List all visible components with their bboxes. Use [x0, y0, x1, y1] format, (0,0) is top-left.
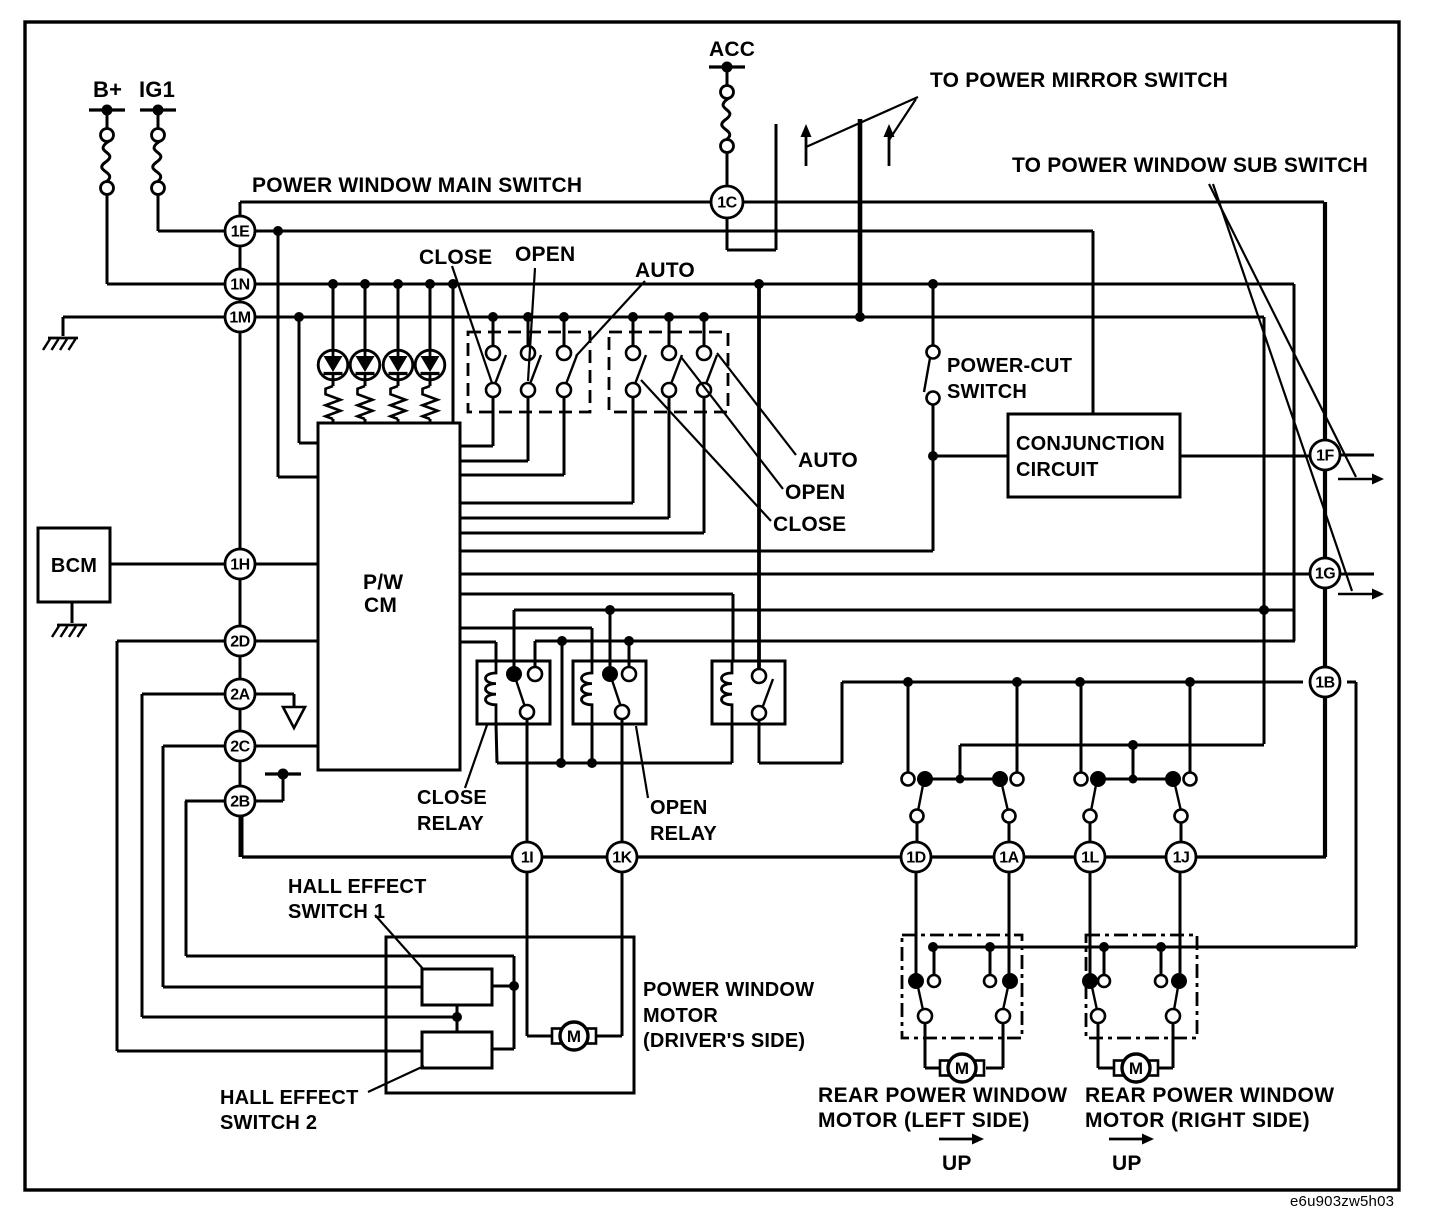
svg-text:1L: 1L — [1081, 850, 1099, 867]
svg-text:UP: UP — [1112, 1152, 1142, 1175]
svg-text:1M: 1M — [229, 310, 250, 327]
svg-text:1I: 1I — [521, 850, 533, 867]
svg-text:CM: CM — [364, 594, 397, 617]
svg-text:1K: 1K — [612, 850, 632, 867]
svg-text:1E: 1E — [231, 224, 250, 241]
svg-text:AUTO: AUTO — [635, 259, 695, 282]
svg-text:POWER WINDOW MAIN SWITCH: POWER WINDOW MAIN SWITCH — [252, 174, 582, 197]
svg-text:2B: 2B — [230, 794, 249, 811]
svg-text:(DRIVER'S SIDE): (DRIVER'S SIDE) — [643, 1030, 805, 1052]
svg-text:1F: 1F — [1316, 448, 1334, 465]
svg-text:CIRCUIT: CIRCUIT — [1016, 459, 1099, 481]
svg-text:2C: 2C — [230, 739, 250, 756]
svg-text:e6u903zw5h03: e6u903zw5h03 — [1290, 1193, 1394, 1210]
svg-text:MOTOR: MOTOR — [643, 1005, 718, 1027]
svg-text:P/W: P/W — [363, 571, 403, 594]
svg-text:1N: 1N — [230, 277, 249, 294]
svg-text:TO POWER MIRROR SWITCH: TO POWER MIRROR SWITCH — [930, 69, 1228, 92]
svg-text:IG1: IG1 — [139, 77, 175, 102]
svg-text:M: M — [1129, 1059, 1143, 1078]
svg-text:POWER-CUT: POWER-CUT — [947, 355, 1072, 377]
svg-text:ACC: ACC — [709, 38, 755, 61]
svg-text:1D: 1D — [906, 850, 925, 867]
svg-text:TO POWER WINDOW SUB SWITCH: TO POWER WINDOW SUB SWITCH — [1012, 154, 1368, 177]
svg-text:SWITCH 1: SWITCH 1 — [288, 901, 385, 923]
svg-text:HALL EFFECT: HALL EFFECT — [288, 876, 427, 898]
svg-text:CLOSE: CLOSE — [417, 787, 487, 809]
svg-text:M: M — [567, 1027, 581, 1046]
svg-text:REAR POWER WINDOW: REAR POWER WINDOW — [818, 1084, 1067, 1107]
svg-text:1H: 1H — [230, 557, 249, 574]
svg-text:REAR POWER WINDOW: REAR POWER WINDOW — [1085, 1084, 1334, 1107]
svg-text:1A: 1A — [999, 850, 1019, 867]
svg-text:CONJUNCTION: CONJUNCTION — [1016, 433, 1165, 455]
svg-text:2A: 2A — [230, 687, 250, 704]
svg-text:M: M — [955, 1059, 969, 1078]
svg-text:SWITCH 2: SWITCH 2 — [220, 1112, 317, 1134]
svg-text:OPEN: OPEN — [650, 797, 707, 819]
svg-text:RELAY: RELAY — [417, 813, 484, 835]
svg-text:OPEN: OPEN — [515, 243, 575, 266]
svg-text:1G: 1G — [1315, 566, 1335, 583]
svg-text:1B: 1B — [1315, 675, 1334, 692]
svg-text:1J: 1J — [1173, 850, 1190, 867]
svg-text:B+: B+ — [93, 77, 122, 102]
svg-text:CLOSE: CLOSE — [773, 513, 846, 536]
svg-text:SWITCH: SWITCH — [947, 381, 1027, 403]
svg-text:HALL EFFECT: HALL EFFECT — [220, 1087, 359, 1109]
svg-text:1C: 1C — [717, 195, 737, 212]
svg-text:MOTOR (RIGHT SIDE): MOTOR (RIGHT SIDE) — [1085, 1109, 1310, 1132]
svg-text:MOTOR (LEFT SIDE): MOTOR (LEFT SIDE) — [818, 1109, 1030, 1132]
svg-text:CLOSE: CLOSE — [419, 246, 492, 269]
svg-text:AUTO: AUTO — [798, 449, 858, 472]
svg-text:OPEN: OPEN — [785, 481, 845, 504]
svg-text:BCM: BCM — [51, 555, 97, 577]
svg-text:RELAY: RELAY — [650, 823, 717, 845]
svg-text:UP: UP — [942, 1152, 972, 1175]
svg-text:POWER WINDOW: POWER WINDOW — [643, 979, 814, 1001]
svg-text:2D: 2D — [230, 634, 249, 651]
